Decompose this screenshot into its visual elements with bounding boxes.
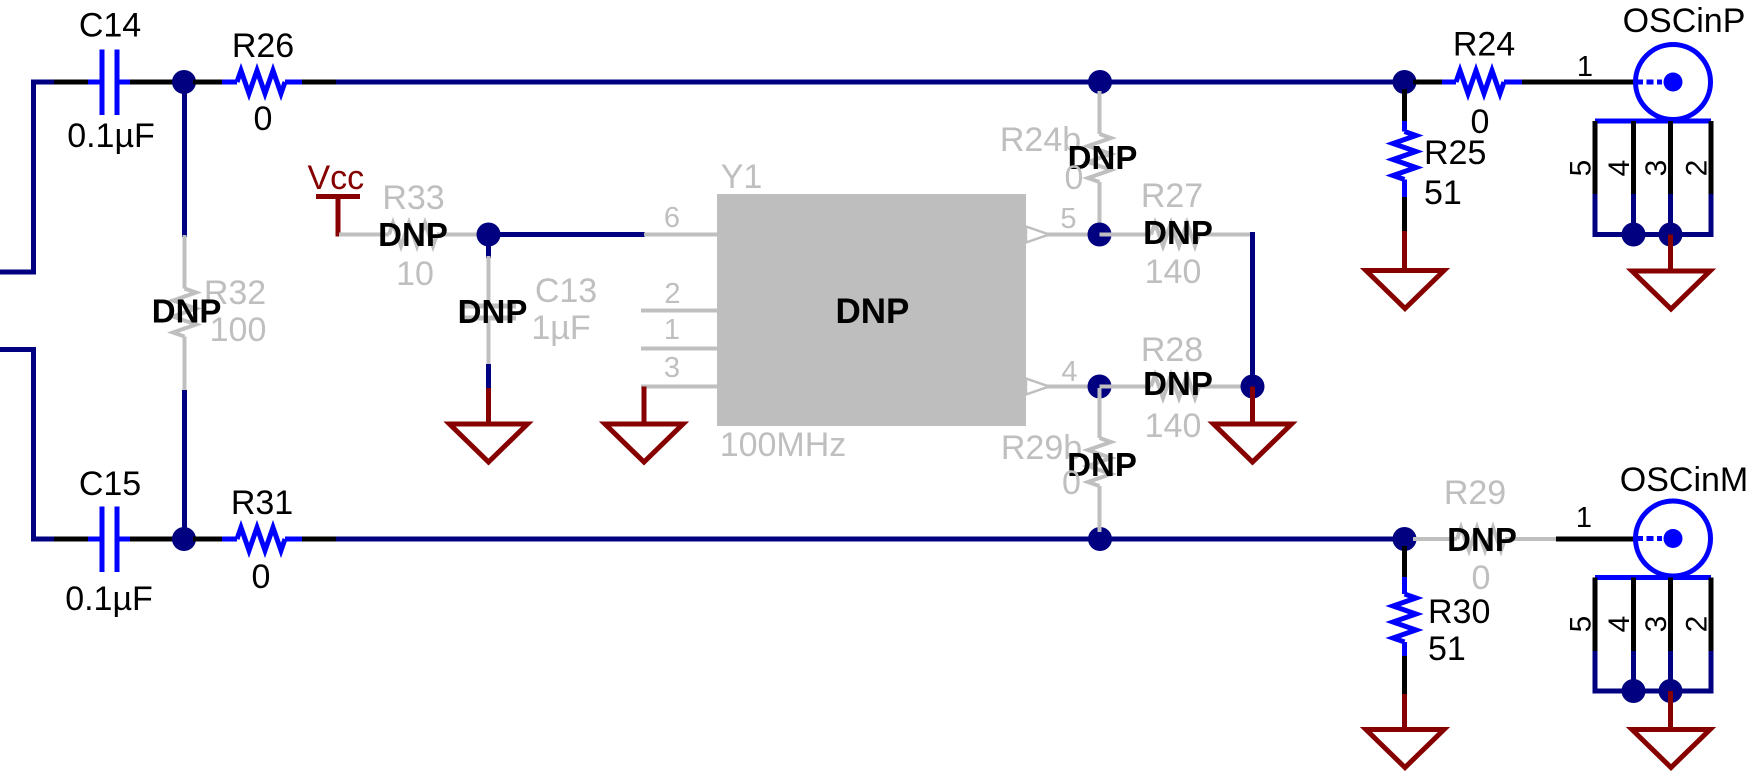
- pin 4 stub Y1: [1026, 385, 1092, 389]
- resistor R28 (DNP): [1100, 385, 1152, 389]
- pin 3 line OSCinM: [1668, 578, 1673, 654]
- wire OSCinM shield rail: [1593, 689, 1714, 694]
- svg-text:Y1: Y1: [721, 158, 763, 196]
- svg-text:R28: R28: [1141, 331, 1203, 369]
- wire R32 upper net stub: [182, 91, 187, 237]
- svg-text:3: 3: [1640, 616, 1673, 633]
- svg-text:DNP: DNP: [458, 293, 528, 330]
- svg-text:0.1µF: 0.1µF: [65, 580, 153, 618]
- svg-text:0: 0: [1062, 464, 1081, 502]
- pin 4 line OSCinP: [1631, 121, 1636, 196]
- wire R25 top pin: [1402, 89, 1407, 121]
- node junction pin4: [1088, 375, 1112, 399]
- pin 3 stub Y1: [641, 385, 717, 389]
- svg-text:3: 3: [664, 352, 680, 384]
- svg-text:5: 5: [1060, 203, 1076, 235]
- svg-text:OSCinM: OSCinM: [1620, 461, 1748, 499]
- ground under C13: [450, 424, 528, 462]
- connector OSCinM coax circle: [1636, 501, 1711, 576]
- svg-text:5: 5: [1565, 160, 1598, 177]
- wire C13 ground lead: [486, 388, 491, 424]
- ground under OSCinM: [1632, 730, 1710, 768]
- node junction OSCinM pin4: [1622, 679, 1646, 703]
- node junction C15/R31/R32: [172, 527, 196, 551]
- wire pin3 ground lead: [642, 387, 647, 425]
- svg-text:DNP: DNP: [1143, 214, 1213, 251]
- pin 5 line OSCinM: [1593, 578, 1598, 654]
- wire R25 bottom pin: [1402, 197, 1407, 233]
- svg-text:R25: R25: [1424, 134, 1486, 172]
- resistor R25: [1402, 121, 1407, 132]
- resistor R31: [222, 537, 237, 542]
- pin 6 stub Y1: [644, 233, 717, 237]
- pin 5 line OSCinP: [1593, 121, 1598, 196]
- wire C15 pin left (black): [54, 537, 88, 542]
- wire bottom rail OSCinM net: [336, 537, 1406, 542]
- ground under pin 3: [605, 424, 683, 462]
- node junction R28 ground: [1241, 375, 1265, 399]
- svg-text:4: 4: [1603, 160, 1636, 177]
- node junction R33/C13/pin6: [477, 223, 501, 247]
- node junction bottom R29b: [1088, 527, 1112, 551]
- node junction top R24/R25: [1393, 70, 1417, 94]
- svg-text:Vcc: Vcc: [307, 159, 364, 197]
- wire R31 right pin: [302, 537, 336, 542]
- wire R26 right pin: [302, 80, 336, 85]
- svg-text:4: 4: [1061, 356, 1077, 388]
- wire R26 left pin: [193, 80, 222, 85]
- svg-text:140: 140: [1145, 407, 1202, 445]
- node junction pin5: [1088, 223, 1112, 247]
- svg-text:100MHz: 100MHz: [720, 426, 847, 464]
- connector OSCinP coax circle: [1636, 45, 1711, 120]
- capacitor C15: [88, 537, 100, 542]
- wire bottom-left off-page stub to C15: [0, 347, 34, 352]
- wire C13 top stub: [486, 243, 491, 258]
- svg-text:51: 51: [1428, 630, 1466, 668]
- svg-text:0: 0: [254, 100, 273, 138]
- svg-text:R24: R24: [1453, 26, 1515, 64]
- svg-text:0: 0: [1065, 159, 1084, 197]
- resistor R26: [222, 80, 237, 85]
- wire R30 bottom pin: [1402, 656, 1407, 696]
- svg-text:1: 1: [1576, 502, 1592, 534]
- pin 5 stub Y1: [1026, 233, 1092, 237]
- wire R24 to OSCinP pin 1: [1522, 80, 1634, 85]
- node junction OSCinP pin4: [1622, 223, 1646, 247]
- node junction OSCinM pin3: [1659, 679, 1683, 703]
- svg-text:5: 5: [1565, 616, 1598, 633]
- oscillator Y1 (DNP): [717, 194, 1026, 426]
- pin 4 line OSCinM: [1631, 578, 1636, 654]
- svg-text:C13: C13: [535, 272, 597, 310]
- node junction C14/R26/R32: [172, 70, 196, 94]
- capacitor C14: [88, 80, 100, 85]
- wire C14 right pin: [130, 80, 175, 85]
- capacitor C13 (DNP): [487, 256, 491, 304]
- svg-text:2: 2: [1681, 160, 1714, 177]
- node junction top R24b: [1088, 70, 1112, 94]
- svg-text:C15: C15: [79, 465, 141, 503]
- node junction bottom R29/R30: [1393, 527, 1417, 551]
- svg-text:R27: R27: [1141, 177, 1203, 215]
- resistor R30: [1402, 577, 1407, 594]
- svg-text:140: 140: [1145, 253, 1202, 291]
- connector OSCinP shield box: [1595, 119, 1711, 124]
- ground under R28: [1214, 424, 1292, 462]
- svg-text:2: 2: [1681, 616, 1714, 633]
- svg-text:R29: R29: [1444, 474, 1506, 512]
- svg-text:DNP: DNP: [378, 216, 448, 253]
- pin 2 line OSCinP: [1709, 121, 1714, 196]
- wire C13 bottom stub: [486, 364, 491, 390]
- svg-text:DNP: DNP: [1143, 365, 1213, 402]
- svg-text:R26: R26: [232, 27, 294, 65]
- wire R32 lower net stub: [182, 390, 187, 532]
- wire R30 ground lead: [1402, 694, 1407, 730]
- resistor R33 (DNP): [339, 233, 389, 237]
- power Vcc: [316, 194, 360, 199]
- svg-text:1: 1: [664, 314, 680, 346]
- svg-text:51: 51: [1424, 174, 1462, 212]
- svg-text:R30: R30: [1428, 593, 1490, 631]
- wire OSCinM ground lead: [1668, 691, 1673, 730]
- svg-text:0.1µF: 0.1µF: [67, 117, 155, 155]
- wire R25 ground lead: [1402, 231, 1407, 271]
- svg-text:R31: R31: [231, 484, 293, 522]
- svg-text:4: 4: [1603, 616, 1636, 633]
- node junction OSCinP pin3: [1659, 223, 1683, 247]
- resistor R29 (DNP): [1413, 537, 1457, 541]
- wire pin6 net: [497, 232, 645, 237]
- svg-text:1: 1: [1577, 51, 1593, 83]
- ground under OSCinP: [1632, 271, 1710, 309]
- wire C14 pin left (black): [54, 80, 88, 85]
- svg-text:DNP: DNP: [835, 292, 909, 331]
- svg-text:0: 0: [252, 558, 271, 596]
- pin 1 stub Y1: [641, 347, 717, 351]
- wire R31 left pin: [193, 537, 222, 542]
- wire top-left off-page stub to C14: [0, 270, 34, 275]
- svg-text:100: 100: [210, 311, 267, 349]
- svg-text:C14: C14: [79, 7, 141, 45]
- wire R29 to OSCinM pin 1: [1556, 537, 1634, 542]
- svg-text:OSCinP: OSCinP: [1623, 2, 1746, 40]
- resistor R32 (DNP): [183, 235, 187, 289]
- wire top rail OSCinP net: [336, 80, 1406, 85]
- svg-text:1µF: 1µF: [531, 309, 590, 347]
- svg-text:2: 2: [664, 278, 680, 310]
- resistor R27 (DNP): [1100, 233, 1152, 237]
- resistor R24b (DNP): [1098, 91, 1102, 134]
- wire R30 top pin: [1402, 546, 1407, 577]
- connector OSCinM shield box: [1595, 575, 1711, 580]
- svg-text:10: 10: [396, 255, 434, 293]
- svg-text:3: 3: [1640, 160, 1673, 177]
- wire OSCinP shield rail: [1593, 232, 1714, 237]
- svg-text:R33: R33: [382, 179, 444, 217]
- svg-text:DNP: DNP: [1447, 521, 1517, 558]
- svg-text:6: 6: [664, 202, 680, 234]
- pin 2 line OSCinM: [1709, 578, 1714, 654]
- wire C15 right pin: [130, 537, 175, 542]
- ground under R25: [1366, 271, 1444, 309]
- wire R28 ground lead: [1250, 387, 1255, 425]
- wire R27 to R28 link: [1250, 232, 1255, 389]
- svg-text:0: 0: [1472, 559, 1491, 597]
- wire R24 left pin: [1413, 80, 1442, 85]
- wire OSCinP ground lead: [1668, 235, 1673, 272]
- ground under R30: [1366, 730, 1444, 768]
- pin 3 line OSCinP: [1668, 121, 1673, 196]
- resistor R29b (DNP): [1098, 388, 1102, 438]
- resistor R24: [1442, 80, 1456, 85]
- pin 2 stub Y1: [641, 309, 717, 313]
